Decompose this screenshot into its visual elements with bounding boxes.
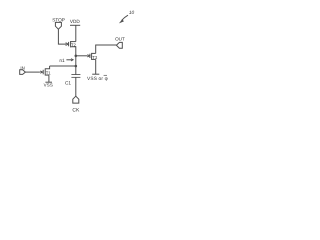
wire C1 to CK pad (75, 77, 77, 96)
wire T1 source to VSS (48, 75, 50, 82)
wire VDD to T2 source (75, 25, 77, 41)
svg-text:C1: C1 (65, 80, 71, 85)
svg-text:VDD: VDD (70, 19, 81, 24)
arrow n1 to net (66, 59, 73, 61)
wire T3 source to VSS rail (95, 59, 97, 74)
transistor T2 (66, 41, 76, 56)
VSS rail under T1 (45, 81, 52, 83)
pad OUT (116, 42, 122, 48)
wire T3 drain to OUT (96, 45, 117, 53)
svg-text:T1: T1 (46, 70, 52, 75)
transistor T3 (87, 53, 95, 60)
wire n1 to T3 gate (76, 55, 88, 57)
svg-text:STOP: STOP (52, 17, 65, 22)
svg-text:CK: CK (72, 108, 80, 114)
VSS rail under T3 (92, 73, 99, 75)
svg-text:OUT: OUT (115, 36, 125, 41)
arrow callout to circuit (119, 15, 128, 23)
pad STOP (55, 22, 61, 29)
svg-text:T3: T3 (92, 55, 98, 60)
junction dot n1 upper (75, 55, 78, 58)
wire n1 vertical (75, 56, 77, 66)
transistor T1 (40, 66, 49, 76)
junction dot n1 lower (75, 65, 78, 68)
label VSS or phi (87, 75, 108, 82)
svg-text:T2: T2 (71, 42, 77, 47)
svg-text:VSS or φ: VSS or φ (87, 76, 108, 82)
capacitor C1 (71, 66, 80, 77)
svg-text:n1: n1 (59, 58, 65, 64)
wire T1 drain to node n1 (50, 65, 76, 67)
wire IN to T1 gate (25, 71, 40, 73)
pad IN (20, 70, 26, 75)
wire STOP to T2 gate (58, 29, 66, 44)
svg-text:VSS: VSS (44, 83, 53, 88)
VDD rail (70, 24, 80, 26)
svg-text:10: 10 (129, 10, 135, 16)
pad CK (73, 96, 79, 103)
